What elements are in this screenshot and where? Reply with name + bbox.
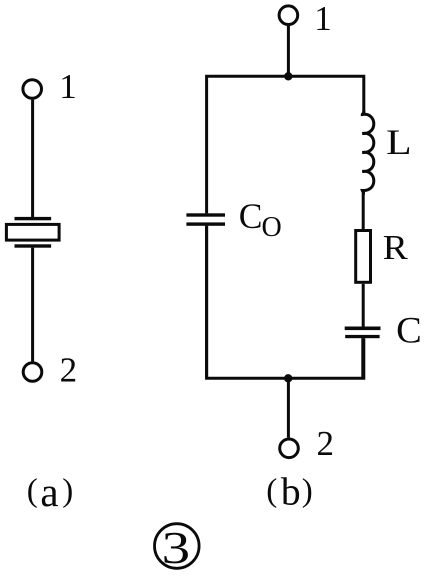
node junction dot top bbox=[284, 72, 292, 80]
svg-text:L: L bbox=[386, 122, 412, 162]
resistor R body bbox=[356, 231, 371, 283]
wire from crystal bottom plate to terminal 2 bbox=[31, 248, 34, 362]
capacitor C0 bottom plate bbox=[186, 222, 225, 225]
capacitor C0 top plate bbox=[186, 213, 225, 216]
wire from terminal 1 down to top node bbox=[287, 26, 290, 76]
svg-text:(: ( bbox=[266, 473, 277, 509]
svg-text:1: 1 bbox=[59, 67, 76, 106]
crystal top electrode plate bbox=[15, 217, 52, 220]
wire from bottom node to terminal 2 bbox=[287, 378, 290, 437]
caption (a) bbox=[27, 469, 73, 515]
svg-text:b: b bbox=[281, 470, 301, 514]
terminal circle 1 of equivalent circuit (b) bbox=[279, 6, 298, 25]
wire from C0 bottom plate to bottom rail bbox=[205, 226, 208, 378]
wire from capacitor C to bottom rail bbox=[361, 338, 364, 378]
caption (b) bbox=[266, 470, 313, 514]
wire from resistor to capacitor C bbox=[362, 284, 365, 327]
capacitor C bottom plate bbox=[345, 335, 379, 338]
svg-text:(: ( bbox=[27, 473, 38, 509]
inductor L coil bbox=[362, 111, 374, 195]
svg-text:a: a bbox=[40, 469, 58, 515]
wire from terminal 1 to crystal top plate bbox=[31, 100, 34, 219]
svg-text:3: 3 bbox=[162, 523, 191, 573]
svg-text:): ) bbox=[302, 473, 313, 509]
wire top rail of loop bbox=[207, 76, 364, 213]
crystal X1 body rectangle bbox=[6, 224, 59, 240]
svg-text:): ) bbox=[62, 473, 73, 509]
wire from inductor to resistor bbox=[362, 191, 365, 230]
svg-text:1: 1 bbox=[314, 0, 332, 38]
value label C0 bbox=[239, 196, 282, 243]
terminal circle 2 of crystal (a) bbox=[23, 363, 42, 382]
terminal circle 2 of equivalent circuit (b) bbox=[280, 439, 299, 458]
figure number circle 3 bbox=[155, 524, 200, 569]
node junction dot bottom bbox=[284, 374, 292, 382]
terminal circle 1 of crystal (a) bbox=[23, 80, 42, 99]
wire bottom rail of loop bbox=[207, 226, 364, 378]
svg-text:R: R bbox=[383, 228, 409, 267]
svg-text:2: 2 bbox=[317, 424, 335, 463]
svg-text:C: C bbox=[396, 309, 422, 350]
svg-text:O: O bbox=[262, 212, 282, 243]
crystal bottom electrode plate bbox=[15, 244, 52, 247]
capacitor C top plate bbox=[345, 327, 381, 331]
svg-text:2: 2 bbox=[60, 350, 78, 389]
svg-text:C: C bbox=[239, 196, 263, 236]
